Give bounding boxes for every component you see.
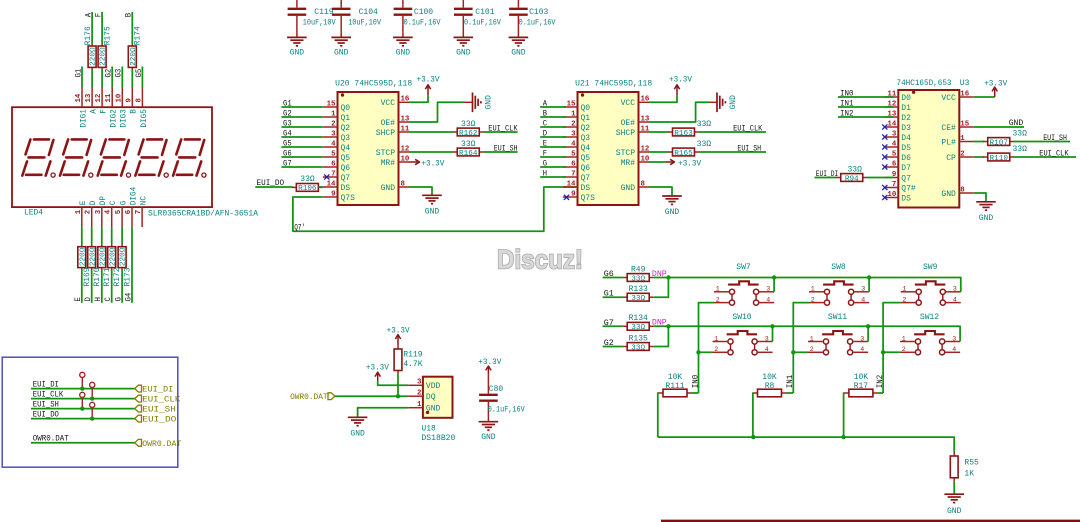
svg-text:Q7S: Q7S — [581, 194, 596, 203]
svg-text:2: 2 — [902, 346, 906, 353]
U20 pin 14 DS — [323, 180, 351, 193]
svg-text:1: 1 — [331, 110, 336, 118]
svg-text:G4: G4 — [123, 293, 133, 302]
svg-text:33Ω: 33Ω — [461, 120, 476, 129]
svg-text:+3.3V: +3.3V — [678, 159, 701, 168]
wire — [692, 392, 699, 394]
svg-text:DS: DS — [581, 184, 591, 193]
svg-text:GND: GND — [484, 95, 493, 110]
svg-text:Q0: Q0 — [341, 104, 351, 113]
wire — [31, 442, 135, 444]
svg-text:8: 8 — [960, 186, 965, 194]
svg-text:33Ω: 33Ω — [300, 175, 315, 184]
svg-text:EUI_SH: EUI_SH — [142, 406, 176, 415]
wire rail — [658, 437, 954, 452]
node stub — [90, 382, 95, 398]
svg-text:C101: C101 — [475, 8, 494, 17]
wire — [81, 227, 83, 244]
svg-text:1: 1 — [714, 335, 718, 342]
ground — [287, 37, 307, 57]
svg-text:Q1: Q1 — [581, 114, 591, 123]
svg-text:Q6: Q6 — [581, 164, 591, 173]
svg-text:DQ: DQ — [426, 393, 436, 402]
svg-text:33Ω: 33Ω — [631, 295, 645, 303]
svg-text:D7: D7 — [901, 164, 911, 173]
U21 pin 5 Q5 — [563, 150, 591, 163]
wire — [974, 96, 995, 98]
wire row1 — [654, 278, 961, 292]
svg-text:SW9: SW9 — [923, 263, 938, 272]
wire — [540, 156, 566, 158]
sheet border bottom — [661, 520, 1080, 522]
U18 pin1 dot — [426, 411, 429, 414]
svg-text:GND: GND — [290, 49, 305, 58]
wire — [603, 277, 623, 279]
resistor R49 — [623, 265, 654, 283]
svg-text:4: 4 — [860, 346, 864, 353]
switch SW12 — [900, 313, 960, 355]
wire — [111, 270, 113, 303]
wire column IN1 — [793, 303, 809, 393]
svg-text:4: 4 — [105, 209, 113, 214]
svg-text:16: 16 — [641, 96, 650, 104]
svg-text:Q3: Q3 — [581, 134, 591, 143]
svg-text:2: 2 — [417, 390, 421, 398]
ground — [976, 202, 996, 223]
wire — [710, 101, 717, 103]
wire column IN2 — [883, 303, 901, 393]
resistor R170 220Ω — [88, 245, 102, 287]
svg-text:8: 8 — [135, 98, 143, 103]
U3 pin 2 CP — [946, 150, 974, 163]
U3 pin 12 D1 — [885, 100, 911, 113]
svg-text:D6: D6 — [901, 154, 911, 163]
resistor R111 10K — [659, 373, 692, 397]
wire — [540, 166, 566, 168]
svg-text:SW12: SW12 — [920, 313, 939, 322]
svg-text:SW10: SW10 — [732, 313, 751, 322]
hierarchical label OWR0.DAT — [135, 439, 182, 448]
U21 pin 8 GND — [621, 180, 649, 193]
svg-text:3: 3 — [765, 335, 769, 342]
svg-text:220Ω: 220Ω — [100, 47, 108, 66]
no-connect — [882, 124, 887, 129]
wire — [91, 227, 93, 244]
no-connect — [882, 134, 887, 139]
wire — [843, 393, 846, 437]
svg-text:C80: C80 — [489, 385, 504, 394]
wire — [281, 146, 322, 148]
ground — [393, 37, 413, 57]
svg-text:DS: DS — [901, 194, 911, 203]
svg-text:+3.3V: +3.3V — [366, 364, 389, 373]
svg-text:220Ω: 220Ω — [109, 247, 117, 266]
svg-text:4: 4 — [892, 140, 897, 148]
svg-text:D0: D0 — [901, 94, 911, 103]
wire — [358, 408, 409, 418]
U3 pin 10 DS — [885, 191, 911, 204]
power +3.3V — [666, 159, 701, 168]
svg-text:G3: G3 — [283, 118, 292, 128]
svg-text:0.1uF,16V: 0.1uF,16V — [404, 19, 441, 28]
svg-text:DIG2: DIG2 — [111, 109, 119, 128]
wire — [409, 187, 432, 195]
svg-text:GND: GND — [947, 507, 962, 516]
U3 pin 8 GND — [941, 186, 973, 199]
svg-text:1: 1 — [571, 110, 576, 118]
svg-text:DIG5: DIG5 — [141, 109, 149, 128]
display LED4 SLR0365CRA1BD body — [12, 107, 212, 207]
wire — [793, 351, 808, 353]
svg-text:G: G — [543, 158, 547, 168]
svg-text:GND: GND — [456, 49, 471, 58]
svg-text:G7: G7 — [283, 158, 292, 168]
capacitor C103 — [509, 0, 556, 37]
wire — [603, 296, 623, 298]
svg-text:3: 3 — [892, 130, 897, 138]
no-connect — [882, 164, 887, 169]
svg-text:GND: GND — [729, 95, 738, 110]
svg-text:33Ω: 33Ω — [1013, 129, 1028, 138]
wire — [786, 392, 793, 394]
power +3.3V — [417, 75, 440, 95]
svg-text:EUI_CLK: EUI_CLK — [488, 123, 518, 133]
svg-text:R8: R8 — [765, 382, 775, 391]
wire — [121, 270, 123, 303]
junction — [751, 435, 755, 439]
svg-text:G3: G3 — [114, 69, 124, 78]
svg-text:G4: G4 — [283, 128, 292, 138]
LED4 top pin 14 DIG1 — [75, 88, 88, 128]
svg-text:R111: R111 — [665, 382, 684, 391]
wire — [293, 187, 576, 231]
U21 pin 4 Q4 — [563, 140, 591, 153]
wire — [699, 151, 767, 153]
wire — [141, 67, 143, 88]
svg-text:3: 3 — [860, 335, 864, 342]
svg-text:14: 14 — [887, 120, 896, 128]
wire — [31, 398, 135, 400]
LED4 top pin 13 A — [85, 88, 98, 114]
wire — [974, 126, 1024, 128]
svg-text:C: C — [543, 118, 547, 128]
wire — [649, 151, 669, 153]
LED4 top pin 9 B — [125, 88, 138, 114]
U21 pin 14 DS — [563, 180, 591, 193]
power +3.3V — [669, 75, 692, 95]
svg-text:GND: GND — [381, 184, 396, 193]
svg-text:CE#: CE# — [941, 124, 956, 133]
digit 3 — [98, 139, 131, 177]
U3 pin 11 D0 — [885, 90, 911, 103]
switch SW10 — [713, 313, 773, 355]
capacitor C80 — [479, 375, 525, 422]
svg-text:4: 4 — [861, 296, 865, 303]
resistor R163 — [668, 120, 711, 138]
svg-text:Q7#: Q7# — [901, 184, 916, 193]
svg-text:4: 4 — [766, 296, 770, 303]
svg-text:U21 74HC595D,118: U21 74HC595D,118 — [575, 80, 652, 89]
svg-text:10: 10 — [887, 191, 896, 199]
svg-text:G: G — [121, 200, 129, 205]
svg-text:+3.3V: +3.3V — [669, 75, 692, 84]
wire — [699, 351, 713, 353]
wire — [281, 136, 322, 138]
svg-text:VCC: VCC — [621, 99, 636, 108]
digit 4 — [135, 139, 168, 177]
LED4 bottom pin 2 D — [85, 200, 98, 227]
wire — [1014, 141, 1071, 143]
LED4 top pin 11 DIG2 — [105, 88, 118, 128]
svg-text:PL#: PL# — [941, 138, 956, 147]
hierarchical label EUI_SH — [135, 405, 176, 414]
svg-text:1: 1 — [810, 335, 814, 342]
svg-text:1: 1 — [417, 401, 422, 409]
capacitor C119 — [288, 0, 336, 37]
svg-text:14: 14 — [327, 180, 336, 188]
svg-text:GND: GND — [350, 429, 365, 438]
svg-text:13: 13 — [641, 115, 650, 123]
svg-text:R176: R176 — [84, 26, 93, 45]
svg-text:R163: R163 — [674, 130, 693, 138]
svg-text:2: 2 — [810, 346, 814, 353]
op-amp U20 74HC595D body — [338, 92, 399, 205]
svg-text:11: 11 — [641, 125, 650, 133]
svg-text:G2: G2 — [104, 69, 114, 78]
svg-text:6: 6 — [125, 209, 133, 214]
wire — [318, 186, 323, 188]
wire — [121, 67, 123, 88]
U20 pin 10 MR# — [381, 155, 410, 168]
svg-text:D4: D4 — [901, 134, 911, 143]
U3 pin 5 D6 — [885, 150, 911, 163]
svg-text:10uF,10V: 10uF,10V — [303, 19, 336, 28]
ground — [348, 417, 368, 438]
resistor R176 220Ω — [84, 26, 98, 69]
svg-text:D: D — [543, 128, 547, 138]
no-connect — [882, 185, 887, 190]
power +3.3V — [478, 358, 501, 375]
svg-text:U20 74HC595D,118: U20 74HC595D,118 — [335, 80, 412, 89]
wire — [101, 270, 103, 303]
svg-text:C104: C104 — [359, 8, 378, 17]
svg-text:A: A — [91, 109, 99, 114]
svg-text:16: 16 — [960, 90, 969, 98]
svg-text:DS: DS — [341, 184, 351, 193]
svg-text:1K: 1K — [964, 469, 974, 478]
svg-text:Q3: Q3 — [341, 134, 351, 143]
svg-text:15: 15 — [960, 120, 969, 128]
U21 pin 7 Q7 — [563, 170, 591, 183]
digit 5 — [173, 139, 206, 177]
wire — [540, 176, 566, 178]
resistor R175 220Ω — [98, 26, 112, 69]
ground — [944, 494, 964, 516]
power +3.3V — [387, 326, 410, 345]
hierarchical label EUI_DO — [135, 415, 177, 424]
svg-text:10K: 10K — [854, 373, 869, 382]
svg-text:DIG1: DIG1 — [80, 109, 88, 128]
junction — [770, 324, 774, 328]
junction — [867, 275, 871, 279]
svg-text:33Ω: 33Ω — [631, 344, 645, 352]
wire — [111, 67, 113, 88]
svg-text:IN2: IN2 — [840, 108, 854, 118]
ground — [422, 195, 442, 216]
svg-text:Q5: Q5 — [341, 154, 351, 163]
junction — [666, 275, 670, 279]
wire — [815, 177, 838, 179]
LED4 bottom pin 7 NC — [135, 196, 148, 227]
U20 pin 2 Q2 — [323, 120, 351, 133]
resistor R164 — [453, 140, 484, 158]
junction — [791, 350, 795, 354]
svg-text:1: 1 — [811, 286, 815, 293]
wire — [540, 106, 566, 108]
wire — [91, 70, 93, 88]
LED4 top pin 8 DIG5 — [135, 88, 148, 128]
wire — [974, 156, 984, 158]
svg-text:Q1: Q1 — [341, 114, 351, 123]
svg-text:2: 2 — [902, 296, 906, 303]
resistor R133 — [623, 285, 654, 303]
svg-text:D5: D5 — [901, 144, 911, 153]
svg-text:1: 1 — [902, 335, 906, 342]
digit 2 — [60, 139, 93, 177]
svg-text:OE#: OE# — [621, 119, 636, 128]
wire — [31, 408, 135, 410]
ground — [509, 37, 529, 57]
svg-text:R162: R162 — [459, 130, 478, 138]
svg-text:7: 7 — [135, 210, 143, 214]
resistor R173 220Ω — [118, 245, 132, 287]
node stub — [80, 392, 85, 408]
wire — [868, 278, 870, 292]
svg-text:VCC: VCC — [941, 94, 956, 103]
svg-text:DS18B20: DS18B20 — [421, 434, 455, 443]
svg-text:R172: R172 — [113, 267, 122, 286]
svg-text:5: 5 — [331, 150, 336, 158]
ground — [454, 37, 474, 57]
svg-text:F: F — [543, 148, 547, 158]
wire — [484, 131, 518, 133]
wire — [281, 166, 322, 168]
power +3.3V — [366, 364, 389, 382]
svg-text:DIG4: DIG4 — [130, 186, 138, 205]
svg-text:GND: GND — [396, 49, 411, 58]
U21 pin 16 VCC — [621, 96, 650, 109]
svg-text:EUI_CLK: EUI_CLK — [733, 124, 763, 134]
svg-text:7: 7 — [571, 170, 575, 178]
LED4 bottom pin 6 DIG4 — [125, 186, 138, 227]
svg-text:3: 3 — [571, 130, 576, 138]
svg-text:Q7': Q7' — [294, 222, 305, 232]
no-connect — [882, 195, 887, 200]
node stub — [90, 402, 95, 418]
wire — [649, 102, 710, 122]
capacitor C101 — [454, 0, 501, 37]
svg-text:Q7: Q7 — [581, 174, 591, 183]
svg-text:Q2: Q2 — [581, 124, 591, 133]
U3 pin 7 Q7# — [885, 181, 916, 194]
LED4 bottom pin 4 C — [105, 200, 118, 227]
junction — [80, 386, 84, 390]
wire — [603, 325, 623, 327]
svg-text:1: 1 — [75, 209, 83, 214]
svg-text:10: 10 — [115, 93, 123, 102]
wire — [378, 381, 409, 385]
svg-text:3: 3 — [417, 379, 422, 387]
svg-text:9: 9 — [331, 190, 335, 198]
power +3.3V — [409, 159, 445, 168]
svg-text:DP: DP — [100, 196, 108, 206]
svg-text:12: 12 — [401, 145, 410, 153]
svg-text:EUI_CLK: EUI_CLK — [1039, 148, 1069, 158]
svg-text:0.1uF,16V: 0.1uF,16V — [464, 19, 501, 28]
svg-text:5: 5 — [892, 150, 897, 158]
U20 pin 12 STCP — [376, 145, 410, 158]
junction — [881, 350, 885, 354]
svg-text:8: 8 — [641, 180, 646, 188]
svg-text:R174: R174 — [134, 26, 143, 45]
svg-text:Q6: Q6 — [341, 164, 351, 173]
wire — [649, 161, 666, 163]
svg-text:220Ω: 220Ω — [79, 247, 87, 266]
svg-text:4: 4 — [571, 140, 576, 148]
svg-text:Q5: Q5 — [581, 154, 591, 163]
svg-text:C100: C100 — [414, 8, 433, 17]
sheet box — [2, 357, 178, 467]
svg-text:SHCP: SHCP — [616, 129, 635, 138]
svg-text:1: 1 — [716, 286, 720, 293]
wire — [974, 193, 986, 202]
svg-text:10: 10 — [641, 155, 650, 163]
wire — [649, 95, 677, 102]
svg-text:MR#: MR# — [621, 159, 636, 168]
U20 pin 4 Q4 — [323, 140, 351, 153]
resistor R94 — [836, 165, 867, 183]
svg-text:IN0: IN0 — [692, 374, 700, 388]
svg-text:C: C — [110, 200, 118, 205]
no-connect — [882, 154, 887, 159]
svg-text:220Ω: 220Ω — [99, 247, 107, 266]
no-connect — [324, 174, 329, 179]
svg-text:15: 15 — [327, 100, 336, 108]
svg-text:IN1: IN1 — [840, 98, 854, 108]
digit 1 — [22, 139, 55, 177]
wire — [101, 70, 103, 88]
wire row2 — [654, 326, 960, 341]
resistor R134 — [623, 314, 654, 332]
svg-text:GND: GND — [425, 208, 440, 217]
svg-text:4: 4 — [952, 346, 956, 353]
wire — [540, 116, 566, 118]
U3 pin1 dot — [912, 91, 915, 94]
wire — [484, 151, 518, 153]
wire — [111, 227, 113, 244]
svg-text:+3.3V: +3.3V — [478, 358, 501, 367]
svg-text:SHCP: SHCP — [376, 129, 395, 138]
U21 pin1 dot — [581, 93, 584, 96]
svg-text:F: F — [101, 109, 109, 114]
svg-text:R55: R55 — [964, 458, 979, 467]
wire — [773, 278, 775, 292]
svg-text:GND: GND — [665, 208, 680, 217]
junction — [80, 406, 84, 410]
wire — [649, 187, 672, 196]
svg-text:C119: C119 — [314, 8, 333, 17]
svg-text:EUI_SH: EUI_SH — [1043, 133, 1067, 143]
